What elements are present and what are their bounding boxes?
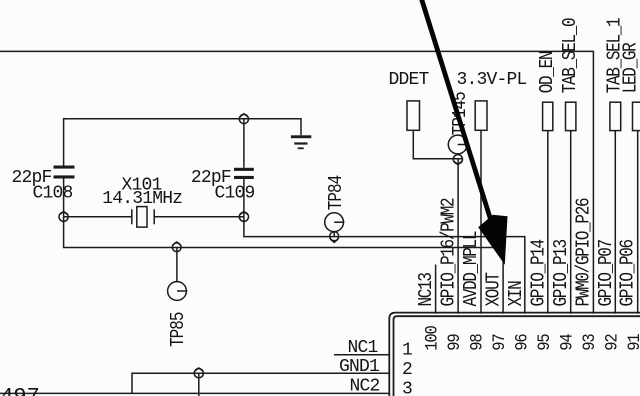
value label 14.31MHz: [102, 189, 182, 209]
crystal X101: [132, 207, 244, 228]
svg-text:91: 91: [624, 333, 640, 351]
pin 1 wire NC1: [334, 354, 390, 356]
wire TAB_SEL_0 to pin 94: [570, 131, 572, 314]
svg-text:NC2: NC2: [350, 377, 380, 396]
svg-text:2: 2: [402, 360, 412, 380]
pin number 1: [402, 341, 412, 361]
reference label C108: [33, 183, 73, 203]
node junction below C108: [59, 212, 68, 222]
svg-text:DDET: DDET: [389, 70, 430, 90]
svg-text:NC13: NC13: [416, 273, 438, 307]
node junction at crystal top rail: [239, 114, 248, 124]
connector stub LED_GR: [633, 102, 640, 130]
test point TP145: [448, 135, 468, 154]
wire XOUT net: C108 junction down and right to pin 97: [64, 217, 504, 314]
svg-text:97: 97: [489, 334, 509, 351]
node junction TP145: [453, 155, 462, 165]
svg-text:XIN: XIN: [506, 281, 528, 307]
svg-text:GPIO_P06: GPIO_P06: [617, 239, 639, 306]
net label LED_GR: [620, 42, 640, 93]
net label TP84: [326, 175, 348, 210]
connector stub OD_EN: [543, 102, 553, 130]
wire crystal top rail: [64, 119, 301, 166]
pin name GND1: [339, 357, 379, 377]
net label OD_EN: [537, 51, 559, 93]
svg-text:3: 3: [402, 380, 412, 396]
wire DDET to TP145 junction: [413, 130, 462, 158]
svg-text:LED_GR: LED_GR: [620, 42, 640, 93]
pin label GPIO_P13: [551, 239, 573, 306]
svg-text:1: 1: [402, 341, 412, 361]
pin 3 wire NC2 long rail: [0, 392, 390, 394]
pin number 98: [467, 334, 487, 351]
pin name NC1: [348, 338, 378, 358]
pin number 100: [422, 326, 442, 351]
node junction TP84 tap: [330, 232, 339, 243]
pin number 91: [624, 333, 640, 351]
pin number 2: [402, 360, 412, 380]
connector stub TAB_SEL_0: [566, 102, 576, 130]
capacitor C109: [234, 168, 254, 179]
annotation arrow pointer: [419, 0, 507, 265]
svg-text:94: 94: [557, 333, 577, 351]
value label 22pF of C108: [12, 168, 52, 188]
pin label GPIO_P16/PWM2: [438, 198, 460, 306]
svg-text:GPIO_P16/PWM2: GPIO_P16/PWM2: [438, 198, 460, 306]
net label TP145: [450, 92, 472, 136]
svg-text:99: 99: [444, 334, 464, 351]
net label 3.3V-PL: [457, 70, 527, 90]
pin label GPIO_P07: [596, 239, 618, 306]
svg-text:C109: C109: [215, 183, 255, 203]
svg-text:C108: C108: [33, 183, 73, 203]
svg-text:14.31MHz: 14.31MHz: [102, 189, 182, 209]
svg-text:H497: H497: [0, 384, 40, 396]
value label 22pF of C109: [191, 168, 231, 188]
wire TAB_SEL_1 to pin 92: [614, 131, 616, 314]
wire OD_EN to pin 95: [547, 131, 549, 314]
test point TP84: [325, 213, 345, 237]
wire C108 bottom to crystal and XOUT rail: [64, 179, 132, 217]
ground: [291, 135, 311, 149]
pin label GPIO_P14: [528, 239, 550, 306]
pin number 99: [444, 334, 464, 351]
svg-text:92: 92: [602, 334, 622, 351]
net label TAB_SEL_1: [604, 18, 626, 93]
svg-text:95: 95: [534, 334, 554, 351]
svg-text:TP85: TP85: [168, 312, 190, 347]
svg-text:AVDD_MPLL: AVDD_MPLL: [461, 231, 483, 306]
IC U1 outline: [389, 313, 640, 396]
svg-text:GPIO_P07: GPIO_P07: [596, 239, 618, 306]
pin number 92: [602, 334, 622, 351]
node junction TP85 tap: [172, 242, 181, 252]
svg-text:TAB_SEL_0: TAB_SEL_0: [560, 18, 582, 93]
pin number 97: [489, 334, 509, 351]
wire 3.3V-PL to pin 98: [480, 130, 482, 313]
reference label C109: [215, 183, 255, 203]
pin number 95: [534, 334, 554, 351]
wire long horizontal net to pin 93: [0, 51, 593, 313]
pin label GPIO_P06: [617, 239, 639, 306]
reference label X101: [122, 175, 162, 195]
connector stub 3.3V-PL: [475, 101, 487, 130]
capacitor C108: [54, 166, 75, 179]
test point TP85: [168, 282, 188, 301]
svg-text:NC1: NC1: [348, 338, 378, 358]
wire to pin 99: [457, 159, 459, 314]
svg-text:XOUT: XOUT: [483, 272, 505, 307]
net label TAB_SEL_0: [560, 18, 582, 93]
node junction below C109: [239, 212, 248, 222]
svg-text:98: 98: [467, 334, 487, 351]
wire LED_GR to pin 91: [637, 131, 639, 314]
pin 100 stub NC13: [435, 265, 437, 314]
pin label AVDD_MPLL: [461, 231, 483, 306]
pin label XOUT: [483, 272, 505, 307]
pin number 3: [402, 380, 412, 396]
node junction on GND1 wire: [194, 368, 203, 396]
net label H97 clipped: [0, 384, 40, 396]
svg-text:PWM0/GPIO_P26: PWM0/GPIO_P26: [573, 198, 595, 306]
connector stub TAB_SEL_1: [610, 102, 621, 130]
svg-text:100: 100: [422, 326, 442, 351]
wire TP85 drop: [176, 248, 178, 282]
svg-text:GPIO_P14: GPIO_P14: [528, 239, 550, 306]
pin number 96: [512, 334, 532, 351]
svg-text:96: 96: [512, 334, 532, 351]
wire XIN net: C109 junction down and right to pin 96: [244, 179, 525, 314]
connector stub DDET: [407, 101, 420, 130]
pin number 94: [557, 333, 577, 351]
svg-text:GND1: GND1: [339, 357, 379, 377]
svg-text:TP84: TP84: [326, 175, 348, 210]
pin 2 wire GND1: [132, 373, 390, 393]
svg-text:93: 93: [579, 334, 599, 351]
pin label NC13: [416, 273, 438, 307]
wire C109 top drop: [243, 119, 245, 168]
svg-text:OD_EN: OD_EN: [537, 51, 559, 93]
pin name NC2: [350, 377, 380, 396]
svg-text:GPIO_P13: GPIO_P13: [551, 239, 573, 306]
pin label XIN: [506, 281, 528, 307]
pin label PWM0/GPIO_P26: [573, 198, 595, 306]
svg-text:3.3V-PL: 3.3V-PL: [457, 70, 527, 90]
net label DDET: [389, 70, 430, 90]
net label TP85: [168, 312, 190, 347]
pin number 93: [579, 334, 599, 351]
